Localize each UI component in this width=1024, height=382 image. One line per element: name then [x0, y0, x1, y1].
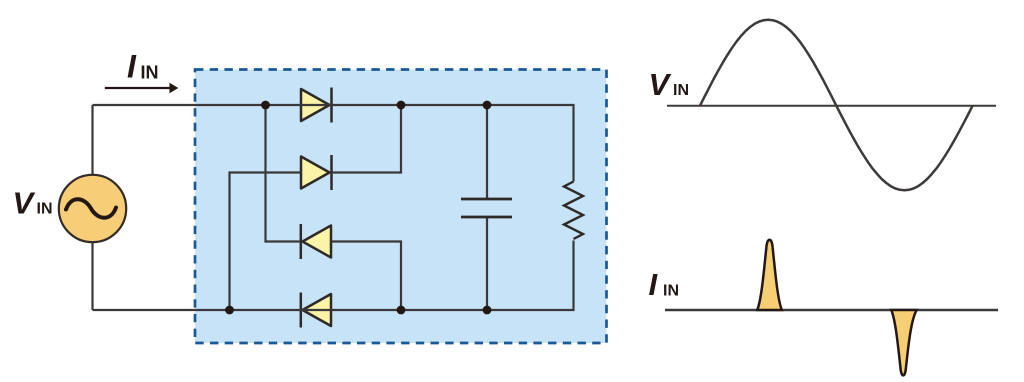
svg-text:I: I: [127, 49, 137, 85]
curve: VIN sine wave: [700, 20, 973, 191]
wire: D2 anode to bottom node: [230, 173, 302, 311]
AC source VIN: [59, 175, 126, 242]
wire: source top lead: [91, 105, 93, 175]
svg-text:IN: IN: [663, 283, 679, 300]
diode D1: [301, 88, 332, 123]
wire: top node to D3 cathode: [266, 105, 301, 242]
wire: D2 cathode to top rail: [332, 105, 402, 173]
axis: IIN waveform: [665, 309, 998, 311]
node: bottom-left junction: [225, 306, 234, 315]
wire: capacitor bottom lead: [486, 217, 488, 310]
node: capacitor top junction: [483, 101, 492, 110]
wire: D3 anode to bottom rail: [331, 242, 401, 311]
pulse: positive IIN spike: [757, 240, 782, 310]
pulse: negative IIN spike: [891, 310, 916, 375]
node: bottom-middle junction: [397, 306, 406, 315]
diode D4: [301, 293, 331, 328]
resistor R1 (load): [564, 182, 583, 240]
diode D2: [301, 155, 332, 190]
svg-text:V: V: [649, 67, 672, 102]
svg-text:IN: IN: [141, 62, 159, 82]
node: capacitor bottom junction: [483, 306, 492, 315]
svg-text:IN: IN: [37, 201, 53, 218]
svg-text:IN: IN: [673, 82, 689, 99]
wire: top rail from source to resistor top: [93, 105, 574, 182]
svg-text:I: I: [649, 267, 659, 302]
wire: bottom rail from source to resistor bottom: [93, 241, 574, 311]
node: top-left junction: [261, 101, 270, 110]
capacitor C1: [461, 199, 512, 217]
wire: capacitor top lead: [486, 105, 488, 199]
wire: source bottom lead: [91, 242, 93, 310]
diode D3: [301, 224, 331, 259]
axis: VIN waveform: [667, 105, 996, 107]
svg-text:V: V: [13, 186, 36, 221]
arrow: input current direction: [105, 83, 179, 94]
node: top-middle junction: [397, 101, 406, 110]
rectifier block (dashed box): [195, 70, 607, 344]
